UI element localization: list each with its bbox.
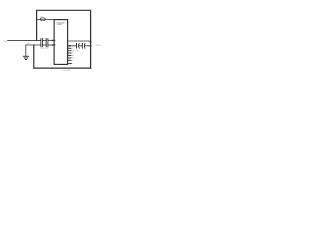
svg-text:VIN: VIN — [4, 41, 8, 43]
wire input return rail — [26, 44, 41, 46]
pin stub 3 — [68, 52, 71, 54]
capacitor C3 — [41, 43, 43, 47]
svg-text:SS: SS — [72, 55, 74, 57]
wire C3 to C4 — [43, 44, 47, 46]
pin stub 1 — [68, 47, 71, 49]
wire input VIN rail — [8, 39, 41, 41]
wire top feedback loop — [37, 10, 91, 68]
wire ground drop — [25, 45, 27, 56]
junction dot B — [90, 45, 92, 47]
wire VOUT caps line — [68, 45, 77, 47]
capacitor C2 — [46, 39, 48, 43]
svg-text:PowerPAD: PowerPAD — [62, 69, 71, 72]
wire bottom ground rail — [34, 45, 91, 68]
svg-text:10uF: 10uF — [40, 48, 44, 50]
wire C1 to C2 — [43, 39, 47, 41]
wire C4 to IC GND pin — [48, 44, 54, 46]
wire fuse branch — [37, 19, 41, 21]
svg-text:DDAR: DDAR — [57, 23, 63, 26]
fuse F1 — [40, 18, 45, 21]
svg-text:VOUT: VOUT — [95, 45, 102, 47]
wire C5 to C6 — [79, 45, 83, 47]
svg-text:BT: BT — [72, 48, 74, 50]
svg-text:10uF: 10uF — [45, 48, 49, 50]
ground — [23, 56, 28, 59]
node output pin tick — [68, 45, 71, 47]
pin stub 7 — [68, 63, 72, 65]
svg-text:47uF: 47uF — [76, 50, 80, 52]
wire C2 to IC VIN pin — [48, 39, 54, 41]
node VIN pin tick — [52, 39, 54, 41]
wire fuse to IC — [45, 19, 54, 21]
svg-text:FB: FB — [72, 58, 74, 60]
capacitor C6 — [82, 44, 85, 49]
svg-text:CP: CP — [72, 60, 74, 62]
capacitor C4 — [46, 43, 48, 47]
pin stub 2 — [68, 50, 71, 52]
pin stub 6 — [68, 59, 71, 61]
capacitor C1 — [41, 39, 43, 43]
op-amp U1 body — [54, 20, 68, 65]
svg-text:F1: F1 — [40, 16, 42, 18]
junction dot A — [90, 41, 92, 43]
capacitor C5 — [77, 44, 80, 49]
pin stub 4 — [68, 55, 71, 57]
pin stub 5 — [68, 57, 71, 59]
wire SW output top — [68, 40, 91, 42]
node GND pin tick — [52, 44, 54, 46]
svg-text:RT: RT — [72, 53, 74, 55]
wire C6 to rail — [84, 45, 90, 47]
